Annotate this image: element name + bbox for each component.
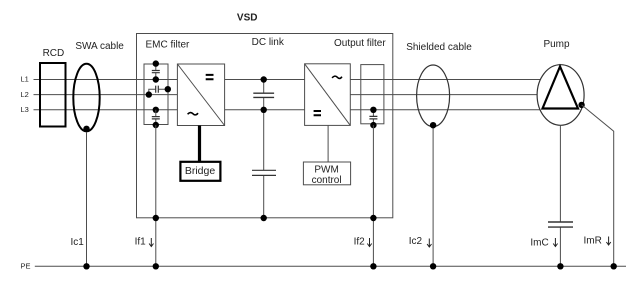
svg-text:ImC: ImC <box>530 238 548 249</box>
wire EMC middle cap leads <box>149 89 168 94</box>
svg-text:SWA cable: SWA cable <box>75 41 124 52</box>
Bridge label box <box>180 162 220 181</box>
capacitor DC link <box>253 93 274 97</box>
arrow ImR <box>606 237 610 246</box>
wire L2 right segment (inverter output) <box>349 94 560 96</box>
capacitor EMC Y-cap middle <box>156 86 159 93</box>
svg-text:Ic1: Ic1 <box>71 237 85 248</box>
svg-text:DC link: DC link <box>252 37 285 48</box>
svg-text:Ic2: Ic2 <box>409 236 423 247</box>
wire L3 <box>34 109 561 111</box>
svg-text:Pump: Pump <box>543 39 570 50</box>
junction If1 on PE <box>153 263 159 269</box>
wire ImC motor cable capacitance leads <box>559 125 561 266</box>
junction ImC on PE <box>557 263 563 269</box>
junction DC link top <box>261 76 267 82</box>
junction output filter bottom <box>370 122 376 128</box>
wire SWA cable shield to PE <box>86 129 88 266</box>
svg-text:VSD: VSD <box>237 13 258 24</box>
junction output filter on L3 <box>370 107 376 113</box>
wire If2 output filter ground to PE <box>372 125 374 266</box>
junction SWA cable shield <box>83 126 89 132</box>
junction Ic2 on PE <box>430 263 436 269</box>
svg-text:Shielded cable: Shielded cable <box>406 42 472 53</box>
RCD box <box>40 63 66 127</box>
wire PE bus <box>35 265 626 267</box>
pump circle <box>537 65 584 126</box>
junction Ic1 on PE <box>83 263 89 269</box>
svg-text:L1: L1 <box>21 75 29 84</box>
wire PWM stub <box>327 125 329 162</box>
junction If2 on VSD bottom edge <box>370 215 376 221</box>
junction shielded cable shield <box>430 122 436 128</box>
svg-text:EMC filter: EMC filter <box>146 40 191 51</box>
junction ImR on PE <box>611 263 617 269</box>
junction EMC middle on box edge <box>165 86 171 92</box>
wire DC link capacitor leads <box>263 80 265 218</box>
wire EMC bottom cap leads <box>155 110 157 125</box>
junction DC link bottom <box>261 107 267 113</box>
junction DC link ground on VSD bottom edge <box>261 215 267 221</box>
wire L1 <box>34 79 561 81</box>
svg-text:ImR: ImR <box>584 236 602 247</box>
arrow If2 <box>367 238 371 247</box>
svg-text:If2: If2 <box>354 237 366 248</box>
svg-text:Bridge: Bridge <box>185 165 216 177</box>
wire If1 EMC ground to VSD bottom <box>155 125 157 266</box>
EMC filter box <box>144 64 168 125</box>
rectifier block <box>177 64 224 126</box>
svg-text:Output filter: Output filter <box>334 38 386 49</box>
VSD enclosure box <box>137 34 393 218</box>
svg-text:RCD: RCD <box>43 48 65 59</box>
capacitor VSD internal to ground <box>252 170 276 175</box>
junction EMC on L3 <box>153 107 159 113</box>
svg-text:L3: L3 <box>21 105 29 114</box>
wire EMC top cap leads <box>155 64 157 80</box>
arrow If1 <box>149 238 153 247</box>
junction If2 on PE <box>370 263 376 269</box>
capacitor output filter <box>369 116 377 119</box>
svg-text:PE: PE <box>21 262 31 271</box>
capacitor EMC Y-cap top <box>152 71 160 73</box>
junction EMC bottom on box edge <box>153 122 159 128</box>
pump triangle <box>543 67 579 109</box>
SWA cable ellipse <box>73 64 99 132</box>
wire bridge stub (thick) <box>198 126 201 163</box>
svg-text:L2: L2 <box>21 90 29 99</box>
svg-text:If1: If1 <box>135 237 147 248</box>
wire ImR pump frame to PE <box>582 105 614 266</box>
junction If1 on VSD bottom edge <box>153 215 159 221</box>
junction pump frame <box>578 102 584 108</box>
arrow ImC <box>553 238 557 247</box>
wire L2 left segment <box>34 94 180 96</box>
wire output filter cap leads <box>372 110 374 125</box>
svg-text:control: control <box>312 175 342 186</box>
capacitor EMC Y-cap bottom <box>152 117 160 119</box>
inverter block <box>305 64 351 126</box>
wire Ic2 shield to PE <box>432 125 434 266</box>
shielded cable ellipse <box>417 65 450 127</box>
junction EMC on L2 <box>146 91 152 97</box>
junction EMC on L1 <box>153 76 159 82</box>
arrow Ic2 <box>427 239 431 248</box>
junction EMC top on box edge <box>153 60 159 66</box>
PWM control label box <box>303 162 350 186</box>
Output filter box <box>361 65 384 124</box>
capacitor ImC motor cable <box>548 222 573 227</box>
